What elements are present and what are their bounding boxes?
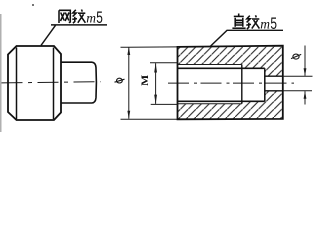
svg-text:m: m [86,11,96,26]
center line (left figure axis) [2,82,101,83]
label 网 (wang) glyph strokes [59,10,70,23]
outer diameter extension line bottom [121,118,178,120]
small hole extension line bottom right [283,90,312,92]
hatch top band [178,46,283,76]
small hole top edge [265,75,283,77]
dimension line phi small upper [304,46,307,77]
thread major line top (thin) [178,64,242,66]
M thread extension line bottom [151,103,178,105]
scan edge artifact left border [0,14,2,132]
svg-text:m: m [260,16,270,31]
small hole extension line top right [283,75,313,77]
label 纹 (wen) glyph strokes [72,10,85,24]
center line (right figure axis) [168,82,294,84]
nut outer rectangle (section) [178,46,283,120]
leader line of knurl label [41,25,107,46]
chamfer line right [53,48,55,120]
knurled head outline [8,46,61,120]
small hole bottom edge [265,90,283,92]
leader line of straight knurl label [210,30,283,46]
label phi (outer) rotated [115,78,125,83]
M thread extension line top [150,62,178,64]
thread end vertical [241,65,243,104]
hole shoulder vertical [264,68,266,101]
speck dot [32,4,34,6]
label 直 (zhi) glyph strokes [232,14,245,29]
thread minor / hole edge top (thick) [178,67,265,69]
outer diameter extension line top [121,46,178,48]
dimension line M [154,63,157,104]
thread major line bottom (thin) [178,103,242,105]
svg-text:5: 5 [270,14,277,33]
svg-text:M: M [140,75,151,86]
hole edge bottom (thick) [178,100,265,102]
shank with domed end [62,62,97,103]
label phi (small hole) rotated [291,54,301,59]
label 纹 (wen) glyph strokes (second) [246,15,259,29]
dimension line phi outer [127,47,130,119]
chamfer line left [16,48,18,120]
dimension line phi small lower [304,91,307,105]
hatch bottom band [178,91,283,120]
svg-text:5: 5 [96,8,103,27]
